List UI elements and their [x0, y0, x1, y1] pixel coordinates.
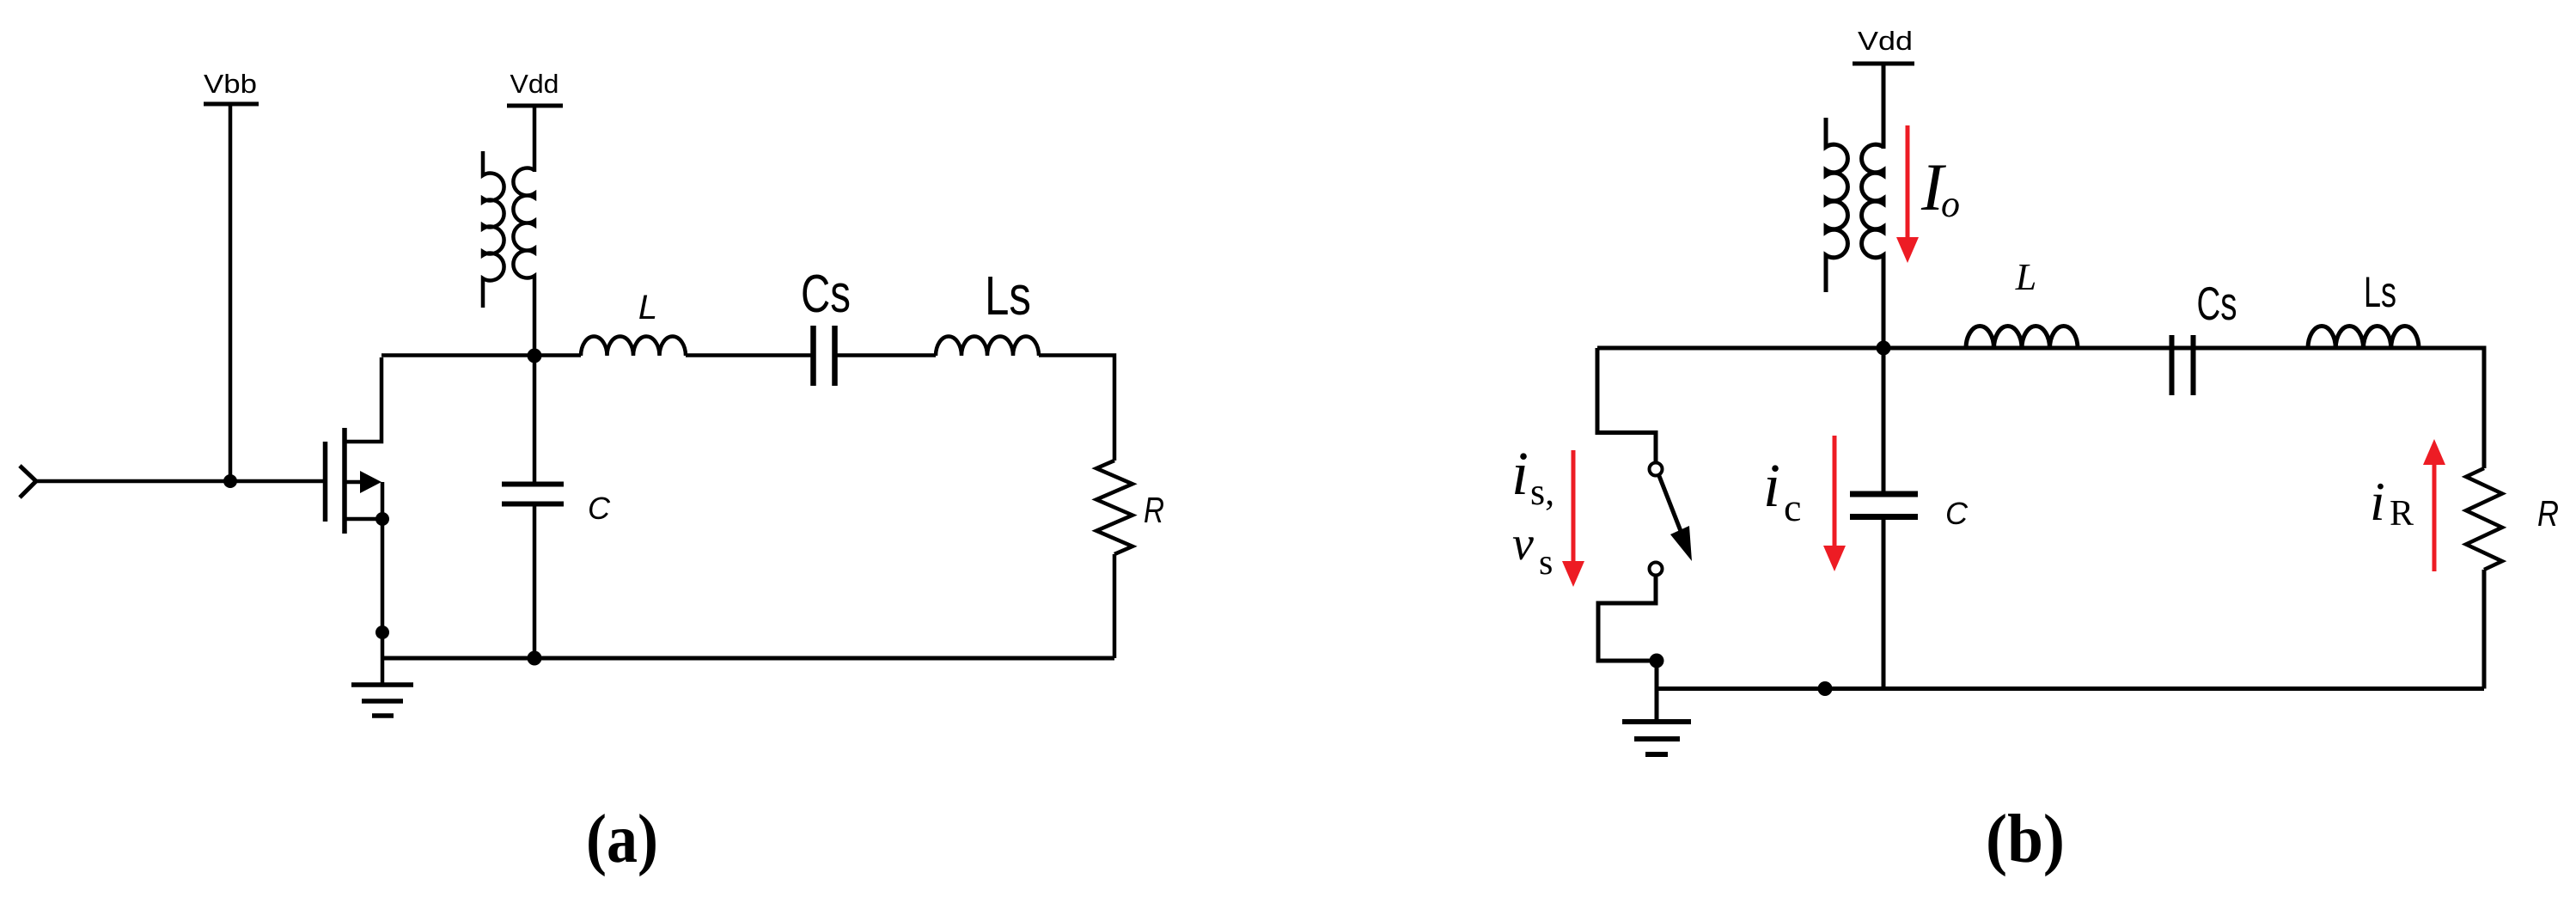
input port chevron — [20, 466, 36, 497]
label R (a) — [1144, 490, 1164, 530]
wire Vbb to gate node — [229, 104, 233, 481]
svg-text:(a): (a) — [586, 802, 658, 877]
svg-text:Vdd: Vdd — [510, 69, 559, 99]
svg-text:Vdd: Vdd — [1858, 26, 1913, 56]
svg-text:Ls: Ls — [2364, 268, 2396, 316]
svg-text:R: R — [1144, 490, 1164, 530]
capacitor Cs (b) plates — [2172, 335, 2194, 395]
capacitor C (b) wire bottom — [1882, 520, 1886, 689]
capacitor C (a) wire bottom — [533, 506, 537, 658]
svg-text:i: i — [2370, 471, 2385, 532]
choke RFC right winding (a) — [513, 168, 534, 280]
inductor Ls (a) — [936, 337, 1039, 357]
label C (b) — [1945, 496, 1969, 531]
switch bottom contact — [1650, 563, 1663, 576]
current arrow is — [1562, 450, 1584, 587]
svg-text:o: o — [1941, 183, 1960, 225]
resistor R (a) — [1096, 461, 1132, 554]
node dot ground rail (b) — [1818, 681, 1833, 696]
svg-text:Vbb: Vbb — [204, 69, 257, 99]
svg-text:Cs: Cs — [801, 265, 851, 324]
capacitor C (b) plates — [1850, 494, 1918, 517]
svg-text:c: c — [1784, 485, 1801, 529]
label is, — [1511, 439, 1554, 513]
svg-text:s: s — [1539, 543, 1553, 583]
switch blade — [1659, 476, 1692, 561]
capacitor C (b) wire top — [1882, 348, 1886, 491]
label C (a) — [588, 491, 611, 526]
transistor M1 source tap — [345, 517, 382, 522]
wire RFC to drain node (a) — [533, 280, 537, 356]
wire R to ground rail (a) — [1113, 554, 1117, 658]
choke RFC left winding (a) — [483, 151, 504, 308]
label Cs (b) — [2197, 277, 2237, 330]
transistor M1 drain tap — [345, 357, 382, 442]
resistor R (b) — [2466, 468, 2502, 570]
wire Cs to Ls (a) — [837, 353, 936, 357]
inductor Ls (b) — [2308, 326, 2419, 349]
wire node to L (b) — [1883, 346, 1966, 351]
svg-text:C: C — [1945, 496, 1969, 531]
wire L to Cs (a) — [686, 353, 811, 357]
choke RFC left winding (b) — [1826, 118, 1847, 292]
transistor M1 body arrow — [360, 471, 382, 493]
power label Vbb — [204, 69, 257, 99]
label L (a) — [638, 289, 657, 326]
wire input to gate — [35, 479, 323, 484]
node dot switch ground (b) — [1650, 654, 1664, 668]
capacitor C (a) plates — [502, 485, 564, 504]
top rail (b) — [1597, 346, 2484, 351]
wire drain rail — [382, 353, 534, 357]
node dot on source wire — [375, 625, 389, 639]
svg-text:s,: s, — [1530, 471, 1554, 513]
inductor L (b) — [1966, 326, 2078, 349]
label Io — [1920, 149, 1960, 225]
wire node to L (a) — [534, 353, 581, 357]
svg-text:i: i — [1511, 439, 1529, 508]
svg-text:C: C — [588, 491, 611, 526]
node dot source tap — [375, 512, 389, 526]
capacitor Cs (a) plates — [814, 326, 835, 386]
node dot top (b) — [1877, 341, 1891, 356]
transistor M1 channel bar — [342, 428, 347, 534]
svg-text:R: R — [2390, 494, 2414, 534]
svg-text:Cs: Cs — [2197, 277, 2237, 330]
svg-text:i: i — [1763, 451, 1780, 520]
subfigure label (a) — [586, 802, 658, 877]
power rail bar Vbb — [204, 102, 259, 107]
svg-text:L: L — [638, 289, 657, 326]
node dot ground rail C branch (a) — [528, 651, 542, 666]
ground stem (b) — [1655, 661, 1659, 722]
transistor M1 gate bar — [323, 442, 328, 522]
transistor M1 body lead — [345, 480, 362, 485]
label R (b) — [2537, 493, 2559, 534]
choke RFC right winding (b) — [1862, 144, 1883, 260]
wire rail to switch (b) — [1597, 348, 1656, 463]
current arrow ic — [1823, 436, 1846, 571]
current arrow Io — [1896, 125, 1919, 263]
wire RFC to node (b) — [1882, 260, 1886, 348]
wire source down to ground rail — [381, 482, 385, 658]
label ic — [1763, 451, 1801, 529]
label iR — [2370, 471, 2414, 534]
inductor L (a) — [581, 337, 686, 357]
ground rail (a) — [382, 656, 1114, 661]
wire switch to ground (b) — [1598, 576, 1657, 662]
svg-text:v: v — [1512, 517, 1534, 571]
label L (b) — [2015, 256, 2036, 298]
wire Vdd stub (a) — [533, 106, 537, 172]
current arrow iR — [2423, 439, 2445, 571]
label vs — [1512, 517, 1553, 583]
svg-text:R: R — [2537, 493, 2559, 534]
label Ls (a) — [985, 265, 1031, 326]
power rail bar Vdd (a) — [507, 104, 563, 108]
svg-text:(b): (b) — [1986, 802, 2065, 877]
subfigure label (b) — [1986, 802, 2065, 877]
capacitor C (a) wire top — [533, 356, 537, 482]
power label Vdd (a) — [510, 69, 559, 99]
ground symbol (a) — [351, 658, 413, 716]
node dot gate bias junction — [223, 474, 237, 488]
wire Ls to R (b) — [2421, 348, 2484, 468]
svg-text:L: L — [2015, 256, 2036, 298]
label Ls (b) — [2364, 268, 2396, 316]
wire L to Cs (b) — [2078, 346, 2169, 351]
power rail bar Vdd (b) — [1853, 62, 1914, 66]
wire Ls to R (a) — [1039, 356, 1114, 461]
ground symbol (b) — [1622, 722, 1691, 754]
power label Vdd (b) — [1858, 26, 1913, 56]
wire Vdd stub (b) — [1882, 64, 1886, 149]
node dot drain node — [528, 349, 542, 363]
label Cs (a) — [801, 265, 851, 324]
wire R to ground rail (b) — [2482, 570, 2487, 689]
svg-text:Ls: Ls — [985, 265, 1031, 326]
wire Cs to Ls (b) — [2196, 346, 2308, 351]
ground rail (b) — [1657, 686, 2484, 691]
switch top contact — [1650, 463, 1663, 476]
